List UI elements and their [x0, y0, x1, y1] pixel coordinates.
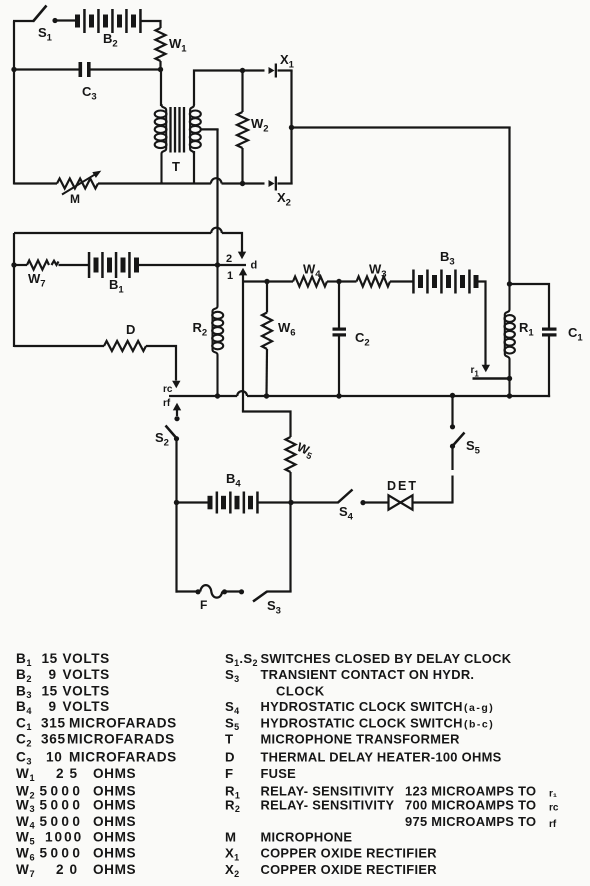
wire hop over contact-1 wire — [237, 391, 247, 396]
wire B2 to W1 corner — [142, 21, 161, 28]
node junction W2 bottom / M row — [240, 181, 245, 186]
wire fuse to S3 contact — [225, 589, 245, 594]
switch S3 — [253, 592, 281, 617]
svg-text:365: 365 — [41, 732, 66, 747]
svg-text:OHMS: OHMS — [93, 846, 136, 861]
thermal delay heater D — [104, 322, 146, 351]
svg-text:MICROPHONE: MICROPHONE — [261, 830, 353, 845]
wire M row to X2 — [243, 182, 265, 184]
node junction W2 top / X1 row — [240, 68, 245, 73]
legend M microphone — [225, 830, 352, 845]
legend left row W2 — [16, 784, 136, 801]
svg-text:S1: S1 — [38, 25, 53, 44]
wire contact bus to W6 — [247, 395, 267, 397]
relay contact 2 arrow — [226, 252, 246, 265]
svg-text:S3: S3 — [267, 598, 281, 617]
svg-text:B3: B3 — [16, 683, 32, 700]
node junction W1 bottom / C3 row — [158, 67, 163, 72]
svg-text:W5: W5 — [16, 830, 35, 847]
svg-text:C3: C3 — [16, 750, 32, 767]
wire X1 row to X1 — [243, 69, 265, 71]
svg-text:(b-c): (b-c) — [464, 718, 494, 730]
legend left row W4 — [16, 814, 136, 831]
svg-text:W7: W7 — [28, 271, 46, 290]
svg-text:W2: W2 — [251, 116, 269, 135]
node junction S5 branch on bus — [450, 393, 455, 398]
legend S3 clock continuation — [276, 683, 325, 698]
wire DET to S4 contact — [360, 500, 388, 505]
svg-text:5000: 5000 — [40, 797, 84, 812]
svg-text:X1: X1 — [280, 52, 295, 71]
svg-text:9: 9 — [49, 667, 57, 682]
svg-text:rc: rc — [549, 802, 559, 813]
node junction C2 top — [336, 279, 341, 284]
svg-text:FUSE: FUSE — [261, 766, 297, 781]
svg-text:C2: C2 — [16, 732, 32, 749]
wire contact bus to C2 — [267, 395, 340, 397]
relay contact r1 bar — [473, 377, 510, 380]
svg-text:25: 25 — [56, 766, 83, 781]
legend left row C3 — [16, 750, 177, 767]
svg-text:THERMAL DELAY HEATER-100 OHMS: THERMAL DELAY HEATER-100 OHMS — [261, 750, 502, 765]
svg-text:15: 15 — [42, 651, 58, 666]
legend left row W7 — [16, 862, 136, 879]
svg-text:M: M — [225, 830, 236, 845]
svg-text:1000: 1000 — [45, 830, 83, 845]
wire contact-1 to W4 row — [243, 280, 267, 282]
svg-text:HYDROSTATIC CLOCK SWITCH: HYDROSTATIC CLOCK SWITCH — [261, 699, 463, 714]
svg-text:(a-g): (a-g) — [464, 702, 494, 714]
svg-text:X1: X1 — [225, 846, 239, 863]
switch S5 — [450, 424, 481, 456]
svg-text:W5: W5 — [294, 440, 316, 461]
wire loop right vertical — [289, 503, 291, 592]
switch S4 — [338, 490, 354, 523]
svg-text:700 MICROAMPS TO: 700 MICROAMPS TO — [405, 797, 536, 812]
svg-text:VOLTS: VOLTS — [63, 683, 110, 698]
svg-text:rf: rf — [549, 819, 557, 830]
wire R1 top to C1 — [510, 284, 550, 328]
wire S3 to loop right vertical — [267, 590, 292, 592]
wire primary bottom lead — [160, 182, 162, 185]
capacitor C2 — [333, 282, 370, 397]
wire contact bus to R1 bottom — [453, 395, 510, 397]
svg-text:C3: C3 — [82, 84, 97, 103]
wire left vertical of top-left loop — [13, 21, 15, 185]
battery B3 — [412, 249, 478, 294]
svg-text:T: T — [225, 732, 233, 747]
svg-text:15: 15 — [42, 683, 58, 698]
node junction r1 bar on R1 wire — [507, 376, 512, 381]
wire tap vertical down through hops — [216, 129, 218, 265]
relay contact 1 arrow — [227, 268, 247, 282]
wire long horizontal to relay R1 branch — [292, 126, 511, 128]
capacitor C1 — [542, 325, 583, 397]
node junction rectifier output — [289, 125, 294, 130]
legend T transformer — [225, 732, 460, 747]
svg-text:S3: S3 — [225, 667, 239, 684]
legend X1 rectifier — [225, 846, 437, 863]
resistor W2 — [237, 71, 269, 184]
svg-text:VOLTS: VOLTS — [63, 699, 110, 714]
wire B3 to r1 contact corner — [478, 282, 486, 366]
legend R1 relay — [225, 784, 557, 801]
wire loop left vertical — [175, 503, 177, 593]
wire S5 branch from bus — [451, 396, 453, 425]
wire X2 to right vertical — [278, 182, 293, 184]
legend left row B4 — [16, 699, 110, 716]
svg-text:R1: R1 — [519, 320, 534, 339]
node junction B1 row left — [11, 262, 16, 267]
svg-text:CLOCK: CLOCK — [276, 683, 325, 698]
node junction R2 bottom on bus — [215, 393, 220, 398]
svg-text:S4: S4 — [225, 699, 239, 716]
svg-text:B3: B3 — [440, 249, 455, 268]
wire M row to W2 junction — [222, 182, 243, 184]
svg-text:VOLTS: VOLTS — [63, 667, 110, 682]
svg-text:B4: B4 — [16, 699, 32, 716]
svg-text:315: 315 — [41, 715, 66, 730]
node junction C2 bottom on bus — [336, 393, 341, 398]
svg-text:B2: B2 — [16, 667, 32, 684]
wire hop over transformer tap wire — [211, 178, 222, 183]
svg-text:B1: B1 — [16, 651, 32, 668]
svg-text:W7: W7 — [16, 862, 35, 879]
node junction W6 bottom on bus — [264, 393, 269, 398]
wire secondary tap — [200, 128, 219, 130]
relay contact rf arrow — [163, 398, 181, 421]
svg-text:TRANSIENT CONTACT ON HYDR.: TRANSIENT CONTACT ON HYDR. — [261, 667, 475, 682]
svg-text:SWITCHES CLOSED BY DELAY CLOCK: SWITCHES CLOSED BY DELAY CLOCK — [261, 651, 512, 666]
wire B4 row left — [177, 501, 209, 503]
svg-text:2: 2 — [226, 253, 232, 265]
legend left row W5 — [16, 830, 136, 847]
svg-text:F: F — [200, 598, 207, 612]
wire middle block top row — [14, 232, 211, 234]
legend R2 relay — [225, 797, 559, 814]
legend left row W6 — [16, 846, 136, 863]
wire W7 to B1 — [59, 264, 90, 266]
wire contact bus row left end — [169, 395, 237, 397]
svg-text:r1: r1 — [471, 365, 480, 379]
svg-text:W4: W4 — [16, 814, 35, 831]
transformer T secondary coil — [172, 104, 201, 174]
svg-text:W6: W6 — [16, 846, 35, 863]
variable resistor M (microphone) — [57, 171, 101, 206]
wire B4 row W5 junction to S4 — [291, 501, 339, 503]
svg-text:RELAY- SENSITIVITY: RELAY- SENSITIVITY — [261, 797, 395, 812]
capacitor C3 — [79, 62, 97, 103]
svg-text:B1: B1 — [109, 277, 124, 296]
wire contact bus to S5 branch — [339, 395, 453, 397]
wire D to rc contact corner — [146, 346, 176, 381]
wire S1 to B2 — [55, 19, 77, 21]
legend left row W1 — [16, 766, 136, 783]
relay contact r1 arrow — [471, 365, 491, 379]
wire B4 to W5 junction — [259, 501, 292, 503]
svg-text:M: M — [70, 192, 80, 206]
switch S2 — [155, 426, 179, 449]
relay armature d stub — [218, 260, 258, 272]
svg-text:R2: R2 — [193, 320, 208, 339]
legend X2 rectifier — [225, 862, 437, 879]
wire S5 to DET row lower — [451, 476, 453, 504]
wire right vertical X1-X2 — [290, 71, 292, 185]
svg-text:r₁: r₁ — [549, 789, 557, 800]
wire top row to contact 2 corner — [222, 233, 242, 252]
transformer T core — [171, 107, 185, 153]
wire right branch vertical down — [508, 127, 510, 285]
switch S1 — [33, 6, 58, 44]
detonator DET — [387, 479, 453, 510]
resistor W1 — [156, 28, 188, 70]
svg-text:HYDROSTATIC CLOCK SWITCH: HYDROSTATIC CLOCK SWITCH — [261, 715, 463, 730]
legend left row B1 — [16, 651, 110, 668]
resistor W4 — [293, 262, 327, 287]
legend R2 relay continuation — [405, 814, 557, 830]
wire contact 1 vertical down — [242, 275, 244, 412]
relay coil R2 — [193, 266, 224, 396]
svg-text:MICROFARADS: MICROFARADS — [69, 750, 177, 765]
resistor W6 — [262, 282, 296, 397]
wire contact bus right end to C1 — [510, 395, 551, 397]
svg-text:rc: rc — [163, 384, 173, 395]
wire W3 to B3 — [390, 280, 414, 282]
resistor W7 — [27, 260, 59, 289]
wire X1 to right vertical corner — [278, 69, 293, 71]
wire W1 junction down to transformer primary — [160, 70, 162, 107]
wire junction to W4 — [267, 280, 293, 282]
svg-text:9: 9 — [49, 699, 57, 714]
node junction R1 top — [507, 281, 512, 286]
svg-text:10: 10 — [46, 750, 63, 765]
node junction armature d — [215, 262, 220, 267]
svg-text:B2: B2 — [103, 31, 118, 50]
svg-text:rf: rf — [163, 398, 171, 409]
legend S3 transient contact — [225, 667, 474, 684]
svg-text:20: 20 — [56, 862, 83, 877]
relay coil R1 — [505, 284, 535, 396]
svg-text:MICROFARADS: MICROFARADS — [67, 732, 175, 747]
battery B4 — [208, 471, 259, 514]
svg-text:W6: W6 — [278, 320, 296, 339]
resistor W3 — [357, 262, 391, 287]
svg-text:COPPER OXIDE RECTIFIER: COPPER OXIDE RECTIFIER — [261, 846, 438, 861]
legend left row C1 — [16, 715, 177, 732]
transformer T primary coil — [155, 104, 167, 185]
wire C3 row left segment — [14, 68, 79, 70]
svg-text:W1: W1 — [169, 36, 187, 55]
svg-text:5000: 5000 — [40, 846, 84, 861]
wire M row middle — [98, 182, 211, 184]
wire secondary bottom lead — [193, 151, 195, 185]
battery B1 — [88, 252, 139, 296]
svg-text:X2: X2 — [277, 190, 291, 209]
svg-text:T: T — [172, 159, 180, 174]
svg-text:S5: S5 — [225, 715, 239, 732]
svg-text:F: F — [225, 766, 233, 781]
wire hop over tap wire on top row — [211, 228, 222, 233]
svg-text:S4: S4 — [339, 504, 354, 523]
rectifier X1 — [269, 52, 295, 78]
wire B1 row to W7 — [14, 264, 27, 266]
wire C3 row right segment — [91, 68, 161, 70]
wire B1 to armature junction — [137, 264, 218, 266]
rectifier X2 — [269, 177, 291, 209]
svg-text:C1: C1 — [16, 715, 32, 732]
svg-text:OHMS: OHMS — [93, 766, 136, 781]
svg-text:d: d — [251, 260, 258, 272]
wire top from corner to S1 — [13, 20, 34, 22]
legend left row W3 — [16, 797, 136, 814]
wire contact-1 branch jog to W5 — [242, 412, 291, 438]
legend S4 hydrostatic — [225, 699, 494, 716]
svg-text:VOLTS: VOLTS — [63, 651, 110, 666]
legend D heater — [225, 750, 502, 765]
node junction R1 bottom on bus — [507, 393, 512, 398]
svg-text:OHMS: OHMS — [93, 814, 136, 829]
legend left row B3 — [16, 683, 110, 700]
svg-text:D: D — [126, 322, 135, 337]
svg-text:W3: W3 — [369, 262, 387, 281]
svg-text:B4: B4 — [226, 471, 241, 490]
wire junction to W3 — [339, 280, 357, 282]
svg-text:W1: W1 — [16, 766, 35, 783]
wire S5 to DET row upper — [451, 446, 453, 470]
node junction W5 bottom / B4 row — [288, 500, 293, 505]
svg-text:S1.S2: S1.S2 — [225, 651, 258, 668]
legend left row B2 — [16, 667, 110, 684]
legend S5 hydrostatic — [225, 715, 494, 732]
wire M row left — [14, 182, 57, 184]
node junction W6 top — [264, 279, 269, 284]
wire secondary top lead to X1 row — [194, 71, 243, 106]
thermal delay heater D row wire — [14, 345, 104, 347]
svg-text:D: D — [225, 750, 235, 765]
resistor W5 — [286, 437, 316, 504]
relay contact rc arrow — [163, 381, 181, 395]
legend left row C2 — [16, 732, 175, 749]
node junction S2 bottom / B4 row — [174, 500, 179, 505]
svg-text:OHMS: OHMS — [93, 830, 136, 845]
svg-text:S2: S2 — [155, 430, 169, 449]
legend F fuse — [225, 766, 296, 781]
svg-text:1: 1 — [227, 270, 233, 282]
svg-text:OHMS: OHMS — [93, 797, 136, 812]
svg-text:5000: 5000 — [40, 814, 84, 829]
svg-text:DET: DET — [387, 479, 418, 493]
svg-text:MICROFARADS: MICROFARADS — [69, 715, 177, 730]
svg-text:975 MICROAMPS TO: 975 MICROAMPS TO — [405, 814, 536, 829]
svg-text:MICROPHONE TRANSFORMER: MICROPHONE TRANSFORMER — [261, 732, 461, 747]
svg-text:C2: C2 — [355, 330, 370, 349]
legend S1.S2 switches — [225, 651, 512, 668]
battery B2 — [75, 9, 142, 50]
wire W4 to W3 junction — [327, 280, 339, 282]
fuse F — [195, 585, 227, 612]
node junction C3-row left — [11, 67, 16, 72]
svg-text:C1: C1 — [568, 325, 583, 344]
wire S2 down to B4 row — [175, 439, 177, 504]
wire bottom row to fuse — [176, 590, 199, 592]
svg-text:COPPER OXIDE RECTIFIER: COPPER OXIDE RECTIFIER — [261, 862, 438, 877]
wire middle block left vertical — [13, 233, 15, 347]
svg-text:X2: X2 — [225, 862, 239, 879]
svg-text:S5: S5 — [466, 438, 481, 457]
svg-text:OHMS: OHMS — [93, 862, 136, 877]
